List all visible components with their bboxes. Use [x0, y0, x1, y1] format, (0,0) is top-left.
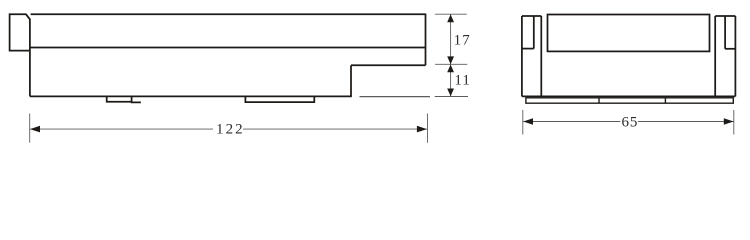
body right edge — [425, 14, 427, 66]
body left edge — [29, 19, 31, 97]
arrowhead 122 right — [417, 126, 427, 133]
svg-text:17: 17 — [454, 33, 471, 49]
step vertical — [350, 65, 352, 96]
left armrest inner horizontal — [522, 48, 534, 50]
extension line left of 65 — [522, 110, 524, 135]
plinth divider right — [664, 98, 666, 103]
right armrest top — [715, 15, 735, 17]
plinth outline — [526, 98, 733, 103]
arrowhead 65 right — [724, 118, 734, 125]
extension line right of 122 — [427, 114, 429, 143]
extension line left of 122 — [29, 114, 31, 143]
left armrest right vertical — [540, 16, 542, 96]
left armrest inner vertical — [533, 16, 535, 49]
arrowhead 11 top (points up) — [447, 65, 454, 73]
headrest block top-left — [10, 14, 30, 50]
bottom edge — [522, 95, 736, 97]
outer right edge — [734, 16, 736, 96]
dimension line 122 left part — [30, 128, 213, 130]
right armrest inner vertical — [724, 16, 726, 49]
foot 1 — [107, 96, 132, 101]
svg-text:11: 11 — [454, 73, 470, 89]
arrowhead 17 top (points up) — [447, 14, 454, 22]
extension line right of 65 — [733, 110, 735, 135]
foot 1 lip — [132, 101, 141, 104]
dimension line 65 right part — [638, 121, 734, 123]
arrowhead 65 left — [523, 118, 533, 125]
svg-text:65: 65 — [621, 114, 638, 130]
svg-text:122: 122 — [216, 122, 245, 138]
body bottom edge — [30, 95, 352, 97]
step horizontal — [351, 64, 426, 66]
foot 2 — [245, 96, 314, 102]
outer left edge — [521, 16, 523, 96]
extension line top (y of body top) — [435, 13, 467, 15]
extension tick bottom — [435, 96, 468, 98]
right armrest left vertical — [714, 16, 716, 96]
arrowhead 17 bottom (points down) — [447, 56, 454, 64]
body top edge — [31, 13, 426, 15]
arrowhead 11 bottom (points down) — [447, 89, 454, 97]
dimension line 122 right part — [243, 128, 427, 130]
dimension line 65 left part — [523, 121, 620, 123]
dimension vertical line 17/11 — [450, 14, 452, 96]
extension tick middle (step level) — [435, 63, 467, 65]
seat line — [30, 47, 426, 49]
backrest rectangle — [548, 15, 710, 52]
right armrest inner horizontal — [725, 48, 735, 50]
left armrest top — [522, 15, 541, 17]
extension line bottom left segment — [360, 96, 431, 98]
plinth divider left — [598, 98, 600, 103]
arrowhead 122 left — [30, 126, 40, 133]
